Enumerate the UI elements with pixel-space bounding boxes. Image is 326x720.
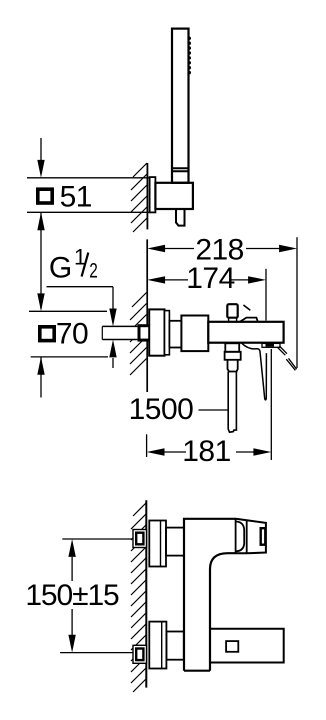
51 extension lines: [27, 177, 150, 179]
top flange: [149, 521, 166, 567]
174 dimension line: [163, 279, 250, 281]
150 dimension extension lines: [62, 538, 133, 540]
diverter knob: [227, 304, 237, 318]
wall hatching (bottom view): [131, 503, 146, 692]
70 extension lines: [29, 310, 107, 312]
1500 leader line: [199, 409, 229, 411]
svg-text:1500: 1500: [129, 393, 194, 426]
lever tick mark: [243, 305, 250, 310]
shower hose: [228, 372, 236, 433]
cartridge rear block: [181, 316, 208, 352]
bottom neck: [166, 632, 183, 660]
handle grip ridges: [188, 37, 191, 75]
spout shoulder: [235, 519, 237, 553]
main body (side view): [208, 322, 283, 343]
holder wall flange: [150, 177, 156, 212]
holder body: [155, 183, 193, 209]
bottom flange: [149, 622, 166, 669]
wall hatching (middle view): [130, 293, 147, 376]
aerator slot: [261, 528, 266, 545]
bottom outlet bar: [210, 629, 284, 663]
hand shower handle: [172, 29, 189, 183]
body slab + spout: [184, 519, 236, 671]
square symbol for 51: [38, 189, 52, 203]
218 right extension line: [296, 237, 298, 368]
flange neck: [169, 321, 181, 348]
svg-text:51: 51: [60, 181, 92, 214]
union nut: [139, 326, 151, 340]
51 dimension arrows: [40, 138, 42, 398]
lever pivot plate: [262, 343, 280, 347]
svg-text:70: 70: [56, 318, 88, 351]
G1/2 leader and arrows: [47, 286, 114, 288]
wall line (top view): [146, 163, 148, 229]
supply pipe G1/2: [102, 326, 147, 339]
bottom inlet nut: [133, 645, 147, 663]
svg-text:G: G: [49, 252, 72, 285]
bottom slab edge: [184, 670, 210, 672]
svg-text:150±15: 150±15: [25, 579, 119, 612]
218 dimension line: [163, 248, 281, 250]
lever blade: [242, 343, 267, 400]
150 dimension line: [71, 557, 73, 635]
181 dimension: [164, 349, 271, 460]
wall line (bottom view): [145, 500, 147, 687]
wall hatching (top view): [131, 163, 147, 232]
wall line (middle view): [146, 239, 148, 392]
movement marks: [277, 346, 296, 370]
174 right extension line: [265, 269, 267, 321]
top inlet nut: [133, 530, 147, 548]
svg-text:181: 181: [182, 435, 231, 468]
holder outlet stub: [176, 209, 185, 226]
shower outlet steps: [225, 343, 239, 352]
svg-text:174: 174: [186, 262, 235, 295]
spout cap: [246, 520, 248, 553]
svg-text:2: 2: [89, 260, 97, 283]
escutcheon flange: [149, 309, 164, 355]
square symbol for 70: [40, 327, 54, 341]
top neck: [166, 528, 184, 556]
lever base trapezoid: [240, 318, 258, 322]
bar square hole: [226, 641, 238, 652]
handle joint band: [172, 167, 189, 169]
